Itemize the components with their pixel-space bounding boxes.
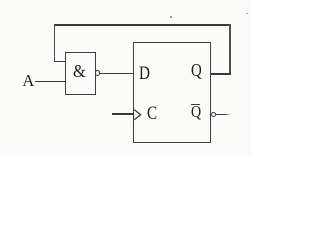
pin label C xyxy=(147,104,157,123)
wire: AND output to D input xyxy=(100,73,134,75)
and-gate U1 body xyxy=(65,52,96,95)
wire: clock input to C xyxy=(112,113,134,115)
wire: top feedback horizontal xyxy=(54,24,231,26)
wire: left feedback vertical xyxy=(54,24,55,62)
pin label Q-bar overline xyxy=(191,104,200,105)
wire: Q-bar output stub xyxy=(216,114,233,115)
pin label Q-bar xyxy=(191,104,201,121)
wire: input A to AND gate xyxy=(35,81,66,83)
speckle xyxy=(170,16,172,18)
speckle xyxy=(246,13,248,15)
wire: stub to AND upper input xyxy=(54,61,67,63)
clock edge triangle on C pin xyxy=(134,109,142,121)
and-gate U1 label & xyxy=(73,62,86,80)
flip-flop U2 body xyxy=(133,42,211,143)
pin label Q xyxy=(191,62,202,80)
and-gate U1 output inversion bubble xyxy=(95,70,100,75)
pin label D xyxy=(139,64,150,83)
wire: Q output to feedback xyxy=(210,73,231,75)
flip-flop Q-bar output inversion bubble xyxy=(211,112,216,117)
wire: right feedback vertical xyxy=(229,24,230,75)
node A xyxy=(22,73,34,90)
